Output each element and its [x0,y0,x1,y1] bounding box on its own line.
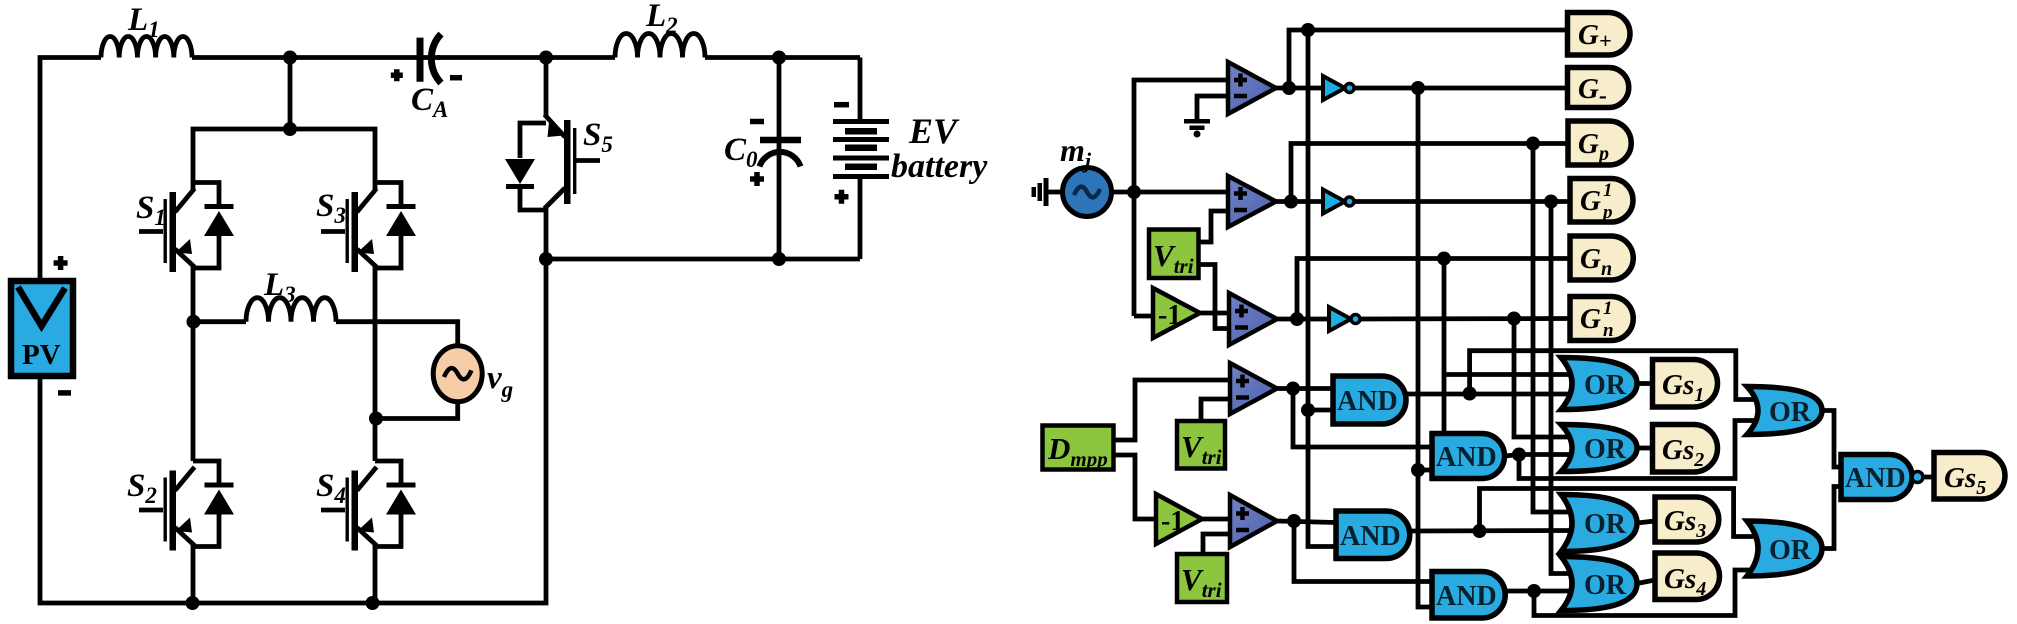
wire: OR5 output to final AND [1822,411,1841,468]
gain block -1 (lower) [1156,494,1202,544]
wire: Gp vertical bus to OR3 [1533,144,1574,513]
svg-text:AND: AND [1340,521,1401,552]
svg-text:G: G [1580,185,1601,217]
wire: Dmpp to comp4 plus [1114,380,1231,440]
wire: AND4 output to OR4 input2 [1506,589,1574,594]
node: C0 bottom junction [772,252,786,266]
node: G+ line tap [1301,23,1315,37]
node: comp1 output [1282,81,1296,95]
comparator U2 (mi vs Vtri) [1228,176,1276,227]
wire: mi node to gain -1 (upper) [1134,314,1153,319]
output box Gs1 [1653,360,1718,408]
wire: OR4 to Gs4 [1637,580,1655,584]
wire: AND4 loop under group2 to OR6 input2 [1534,570,1762,616]
node: C0 top junction [772,51,786,65]
gate OR6 [1747,521,1822,576]
gate OR3 [1561,495,1637,552]
output box Gp1 [1570,179,1633,224]
solar panel PV [11,256,73,393]
inductor L2 [615,34,705,58]
node: L3 left junction [187,315,201,329]
output box Gs5 [1934,453,2005,500]
node: Gp1 line tap [1544,195,1558,209]
battery EV [833,58,889,260]
output box Gs2 [1653,425,1718,473]
node: Gn line tap [1437,252,1451,266]
svg-text:AND: AND [1436,442,1497,473]
gate AND4 [1432,572,1505,619]
svg-text:PV: PV [22,339,61,371]
comparator U3 (-mi vs Vtri) [1229,293,1277,345]
node: Gp line tap [1526,137,1540,151]
wire: top rail CA to S5 node [437,55,615,60]
svg-text:p: p [1601,202,1613,223]
wire: bottom rail [40,259,546,603]
wire: AND1 output to OR1 input2 [1406,392,1574,397]
svg-text:OR: OR [1769,397,1812,428]
inverter (NOT) after comp3 [1329,307,1360,331]
gate AND2 [1432,434,1505,479]
wire: comp2 out to inverter2 [1291,199,1323,204]
wire: G- line [1354,86,1568,91]
wire: comp1 minus to ground [1197,96,1228,119]
transistor S2 (IGBT with diode) [139,461,234,551]
node: AND1 input2 tap [1301,403,1315,417]
wire: comp2 minus to Vtri1 [1199,211,1229,242]
node: Gn1 line tap [1507,312,1521,326]
svg-text:OR: OR [1584,434,1627,465]
wire: left leg S1 emitter to S2 collector [191,265,196,461]
wire: OR3 to Gs3 [1637,521,1655,523]
node: AND3 output tap [1473,524,1487,538]
node: comp5 output [1287,514,1301,528]
output box G+ [1568,13,1631,56]
wire: vg return to right leg [377,402,458,419]
svg-text:battery: battery [891,148,988,185]
wire: Gn1 line [1360,316,1570,321]
gate OR1 [1561,358,1637,410]
gain block Dmpp [1043,426,1114,472]
gain block -1 (upper) [1153,288,1200,338]
wire: top rail L2 to battery corner [705,55,860,60]
wire: comp3 out to inverter3 [1297,317,1329,322]
wire: mid rail S5 to battery [546,257,860,262]
wire: Gp1 vertical bus to OR4 [1551,202,1574,574]
output box Gs4 [1655,553,1719,600]
svg-text:OR: OR [1769,535,1812,566]
wire: comp1 out to inverter1 [1289,86,1323,91]
wire: AND2 loop under group1 to OR5 input2 [1519,421,1762,479]
wire: AND5 bubble to Gs5 [1923,475,1934,480]
wire: AND3 loop over group2 to OR6 input1 [1480,489,1763,537]
wire: top rail L1 to capacitor CA [192,55,440,60]
node: bottom rail right junction [366,596,380,610]
wire: AND3 output to OR3 input2 [1410,528,1574,533]
wire: comp4 minus to Vtri2 [1201,399,1230,421]
svg-text:AND: AND [1436,581,1497,612]
wire: AND1 input2 stub [1308,408,1333,413]
svg-text:1: 1 [1603,180,1613,201]
gate AND1 [1333,376,1406,424]
wire: comp4 branch down to AND2 input1 [1293,389,1432,448]
svg-text:OR: OR [1584,570,1627,601]
wire: G- vertical bus [1418,88,1432,607]
svg-text:1: 1 [1603,298,1613,319]
wire: Gp1 line [1354,199,1570,204]
comparator U4 (Dmpp vs Vtri) [1230,363,1277,414]
wire: OR1 to Gs1 [1637,381,1653,386]
node: bottom rail left junction [186,596,200,610]
wire: S4 emitter to bottom rail [373,543,378,603]
node: comp2 output [1284,195,1298,209]
wire: L3 lead left [194,319,247,324]
wire: comp5 branch down to AND4 input1 [1294,521,1432,582]
gate AND3 [1336,511,1410,559]
gate OR5 [1747,387,1822,435]
wire: top rail left segment PV to L1 [40,58,101,281]
wire: Dmpp to gain -1 (lower) [1114,455,1157,519]
wire: gain-1 to comp3 plus [1200,311,1229,316]
inductor L1 [101,37,192,58]
capacitor CA [391,34,462,83]
wire: comp5 minus to Vtri3 [1203,534,1230,554]
comparator U5 (-Dmpp vs Vtri) [1230,495,1277,547]
node: G- line tap [1411,81,1425,95]
inverter (NOT) after comp1 [1323,76,1354,100]
wire: comp1 output up to G+ line [1276,30,1568,88]
wire: comp2 output up to Gp line [1276,144,1568,202]
node: comp3 output [1290,312,1304,326]
output box G- [1568,68,1629,110]
wire: Gn1 vertical bus to OR2 [1514,319,1574,438]
capacitor C0 [750,58,801,260]
svg-text:OR: OR [1584,509,1627,540]
ground (signal, left of mi source) [1032,178,1064,206]
gain block Vtri (1) [1149,230,1199,279]
source mi (sine) [1063,168,1112,217]
svg-text:-1: -1 [1161,506,1184,537]
node: vg return junction [369,412,383,426]
wire: Vtri1 to comp3 minus [1199,265,1230,329]
gain block Vtri (2) [1177,421,1225,469]
wire: comp5 output to AND3 input1 [1277,521,1336,523]
svg-text:AND: AND [1845,463,1906,494]
wire: L3 to vg source [336,322,458,347]
wire: Gn branch to OR1 input1 [1444,372,1574,377]
output box Gn [1570,236,1633,280]
svg-text:-1: -1 [1158,300,1181,331]
wire: AND1 loop over group1 to OR5 input1 [1470,351,1762,400]
gate OR2 [1561,425,1637,472]
node: S5 column top junction [539,51,553,65]
output box Gn1 [1570,297,1633,342]
svg-text:OR: OR [1584,370,1627,401]
node: H-bridge top junction [283,122,297,136]
wire: OR6 output to final AND [1822,487,1841,549]
node: AND1 output tap [1463,387,1477,401]
node: mi junction [1127,185,1141,199]
wire: S2 emitter to bottom rail [191,543,196,603]
wire: comp3 output up to Gn line [1277,259,1570,320]
svg-text:EV: EV [908,111,960,151]
ground (comp1 minus) [1184,119,1210,138]
svg-text:G: G [1580,303,1601,335]
inverter (NOT) after comp2 [1323,190,1354,214]
wire: riser from top rail to H-bridge top [288,58,293,130]
wire: mi output to comparator2 [1112,190,1229,195]
node: AND4 output tap [1527,584,1541,598]
node: comp4 output [1286,382,1300,396]
inductor L3 [246,298,336,322]
transistor S1 (IGBT with diode) [139,183,234,273]
wire: H-bridge top rail [193,129,375,190]
node: AND2 input2 tap [1411,463,1425,477]
wire: G+ vertical bus [1308,30,1336,547]
transistor S3 (IGBT with diode) [321,183,416,273]
gate OR4 [1561,557,1637,611]
transistor S5 (IGBT with diode, mirrored) [505,58,600,260]
node: top rail junction [283,51,297,65]
output box Gp [1568,121,1631,165]
wire: OR2 to Gs2 [1637,446,1653,451]
wire: AND2 output to OR2 input2 [1505,455,1574,457]
wire: mi node vertical to comp1 and inverter-gain [1134,80,1228,316]
svg-text:AND: AND [1337,386,1398,417]
node: AND2 output tap [1512,448,1526,462]
gain block Vtri (3) [1177,554,1227,602]
wire: Gn vertical bus to OR1/AND2 [1442,259,1447,434]
transistor S4 (IGBT with diode) [321,461,416,551]
node: S5 bottom junction [539,252,553,266]
svg-text:n: n [1603,320,1614,341]
wire: gain-1 lower to comp5 plus [1202,517,1230,522]
output box Gs3 [1655,497,1719,542]
wire: right leg S3 emitter to S4 collector [373,265,378,461]
wire: AND2 input2 stub [1418,468,1432,473]
wire: comp4 output to AND1 input1 [1277,386,1333,391]
comparator U1 (mi vs ground) [1228,62,1276,114]
gate AND5 (output NAND to Gs5) [1841,455,1923,500]
source vg (AC) [433,346,482,402]
